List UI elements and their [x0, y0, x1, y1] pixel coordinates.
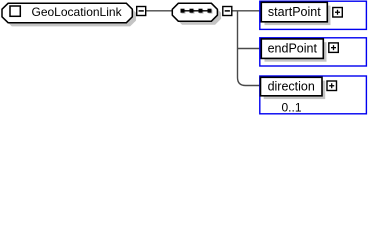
wire element to sequence [146, 10, 172, 12]
child frame startPoint [260, 1, 367, 29]
element endPoint shadow [265, 42, 327, 62]
element GeoLocationLink box [2, 3, 132, 22]
svg-text:direction: direction [268, 80, 315, 94]
element direction box [261, 77, 323, 96]
element endPoint box [261, 39, 323, 59]
element icon [10, 6, 20, 16]
wire trunk with elbow to direction branch [238, 11, 260, 86]
sequence icon dots [181, 9, 212, 13]
svg-text:GeoLocationLink: GeoLocationLink [32, 5, 123, 19]
wire branch to endPoint [238, 48, 260, 50]
element GeoLocationLink shadow [6, 7, 136, 26]
sequence compositor box [172, 3, 217, 21]
wire sequence to startPoint branch [232, 10, 260, 12]
sequence icon line [182, 10, 212, 12]
svg-text:0..1: 0..1 [281, 100, 301, 114]
child frame endPoint [260, 38, 367, 66]
element startPoint box [261, 2, 327, 22]
element startPoint shadow [265, 6, 331, 26]
expand toggle plus direction [327, 81, 337, 91]
element direction shadow [264, 81, 326, 100]
expand toggle minus 2 [223, 7, 232, 16]
expand toggle plus startPoint [333, 8, 343, 18]
svg-text:startPoint: startPoint [268, 5, 321, 19]
expand toggle plus endPoint [329, 43, 339, 53]
expand toggle minus 1 [137, 7, 146, 16]
child frame direction [260, 76, 367, 114]
svg-text:endPoint: endPoint [268, 42, 318, 56]
sequence compositor shadow [176, 7, 221, 25]
sequence icon dots shadow [182, 10, 213, 14]
